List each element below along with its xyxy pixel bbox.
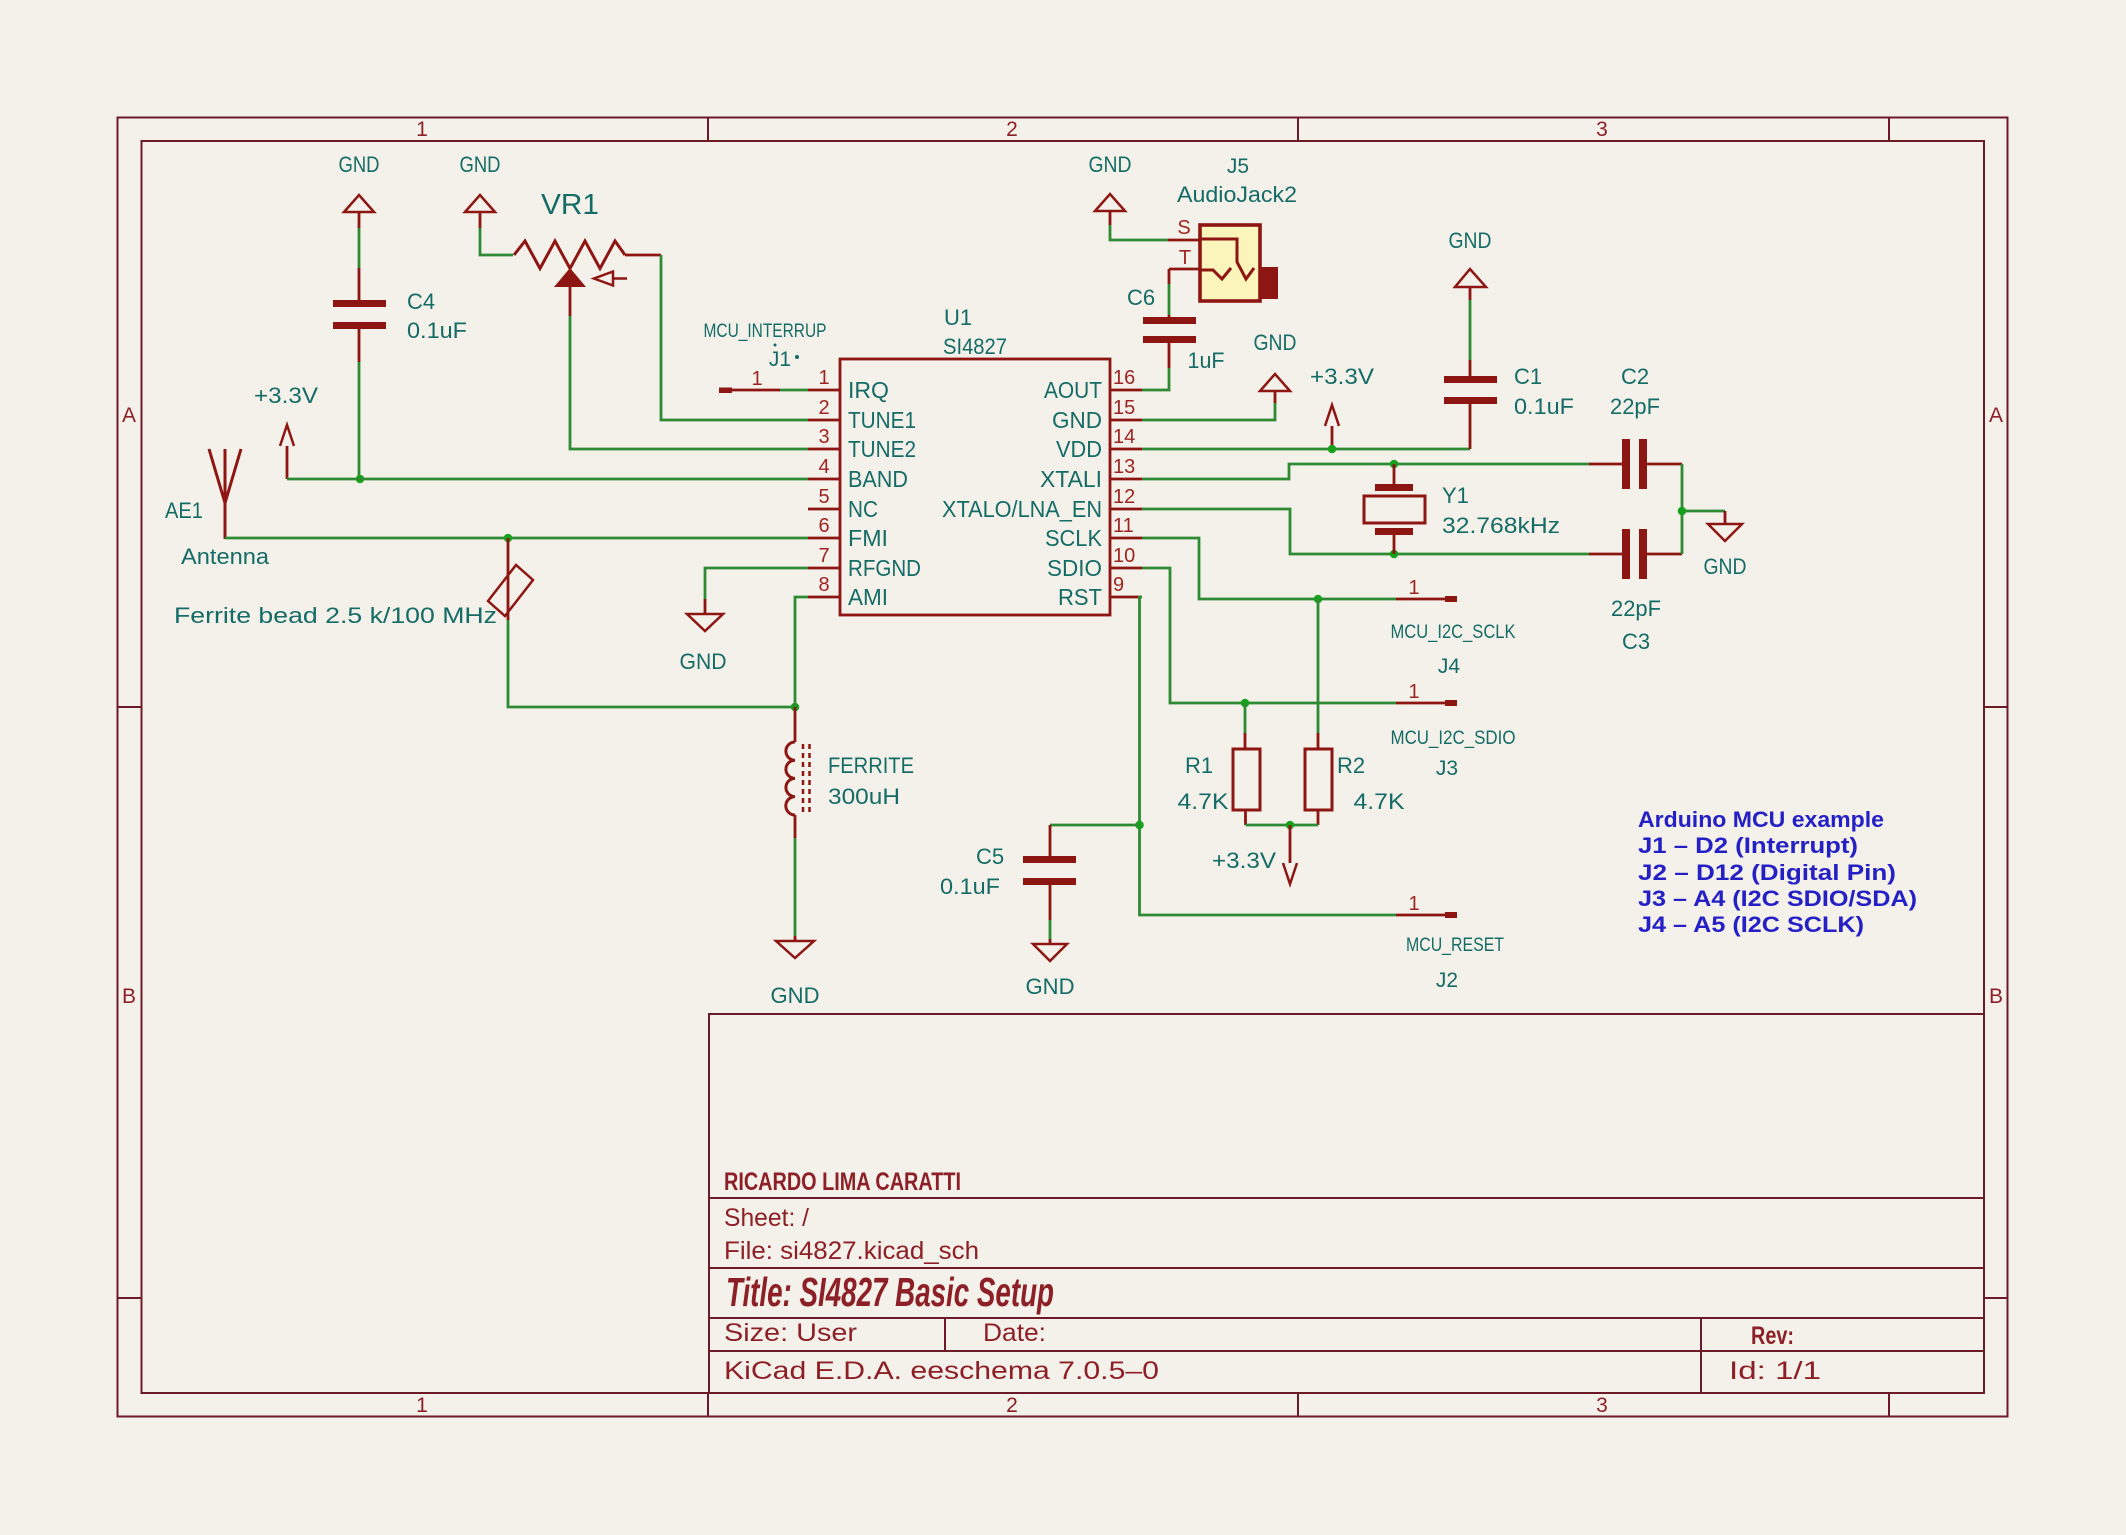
Antenna value label — [181, 544, 270, 569]
U1 value label SI4827 — [943, 334, 1007, 359]
svg-text:J3: J3 — [1436, 757, 1458, 780]
title block sheet — [724, 1204, 809, 1232]
svg-text:MCU_RESET: MCU_RESET — [1406, 935, 1504, 956]
wire C6 to AOUT pin — [1142, 368, 1169, 390]
svg-text:15: 15 — [1113, 397, 1135, 419]
svg-text:1: 1 — [1408, 893, 1419, 915]
svg-text:Arduino MCU example: Arduino MCU example — [1638, 807, 1884, 832]
U1 pin 11 SCLK — [1045, 515, 1142, 551]
capacitor C5 — [1023, 825, 1076, 920]
svg-text:22pF: 22pF — [1610, 394, 1660, 419]
C3 reference label — [1622, 629, 1650, 654]
junction C2/C3/GND — [1678, 507, 1687, 516]
title block title — [726, 1269, 1054, 1315]
svg-text:10: 10 — [1113, 545, 1135, 567]
J3 pin number 1 — [1408, 681, 1419, 703]
svg-text:U1: U1 — [944, 305, 972, 330]
wire GND to VR1 left — [480, 228, 513, 255]
svg-text:32.768kHz: 32.768kHz — [1442, 513, 1560, 538]
U1 pin 5 NC — [808, 486, 878, 522]
svg-text:4.7K: 4.7K — [1354, 789, 1405, 814]
GND net label (pin15) — [1254, 330, 1297, 355]
C2 value label — [1610, 394, 1660, 419]
C5 value label — [940, 874, 1000, 899]
GND net label (jack) — [1089, 152, 1132, 177]
svg-text:1uF: 1uF — [1188, 348, 1225, 373]
connector J2 — [1396, 912, 1457, 918]
title block file — [724, 1237, 979, 1265]
svg-text:FERRITE: FERRITE — [828, 753, 914, 778]
capacitor C4 — [333, 268, 386, 362]
C5 reference label — [976, 844, 1004, 869]
wire VDD net — [1142, 448, 1470, 451]
svg-text:FMI: FMI — [848, 525, 888, 551]
junction crystal top — [1390, 460, 1399, 469]
svg-text:C1: C1 — [1514, 364, 1542, 389]
title block id — [1729, 1357, 1821, 1385]
svg-text:8: 8 — [818, 574, 829, 596]
svg-text:S: S — [1177, 217, 1190, 239]
U1 pin 15 GND — [1052, 397, 1142, 433]
U1 pin 9 RST — [1058, 574, 1142, 610]
svg-text:+3.3V: +3.3V — [1310, 364, 1374, 389]
svg-text:5: 5 — [818, 486, 829, 508]
junction C4/BAND — [356, 475, 365, 484]
U1 reference label — [944, 305, 972, 330]
wire J1 to IRQ pin — [780, 389, 808, 392]
wire GND to C4 — [358, 228, 361, 268]
svg-text:13: 13 — [1113, 456, 1135, 478]
svg-text:SDIO: SDIO — [1047, 555, 1102, 581]
svg-text:VDD: VDD — [1056, 436, 1102, 462]
wire XTALI net — [1142, 464, 1589, 479]
svg-text:GND: GND — [1254, 330, 1297, 355]
svg-text:1: 1 — [1408, 577, 1419, 599]
capacitor C2 — [1589, 439, 1682, 489]
svg-text:XTALI: XTALI — [1040, 466, 1102, 492]
svg-text:KiCad E.D.A. eeschema 7.0.5–0: KiCad E.D.A. eeschema 7.0.5–0 — [724, 1357, 1159, 1385]
svg-text:AOUT: AOUT — [1044, 377, 1102, 403]
svg-text:A: A — [1989, 404, 2003, 427]
L1 300uH value label — [828, 784, 900, 809]
wire VR1 wiper to TUNE2 — [570, 316, 808, 449]
svg-text:J3 – A4 (I2C SDIO/SDA): J3 – A4 (I2C SDIO/SDA) — [1638, 886, 1917, 911]
U1 pin 8 AMI — [808, 574, 888, 610]
svg-text:2: 2 — [818, 397, 829, 419]
svg-text:Ferrite bead 2.5 k/100 MHz: Ferrite bead 2.5 k/100 MHz — [174, 603, 497, 628]
svg-text:TUNE2: TUNE2 — [848, 436, 916, 462]
svg-text:3: 3 — [1596, 1394, 1608, 1417]
J1 pin number 1 — [751, 368, 762, 390]
power +3.3V symbol (VDD) — [1325, 405, 1339, 449]
svg-text:J4 – A5 (I2C SCLK): J4 – A5 (I2C SCLK) — [1638, 912, 1864, 937]
svg-text:RICARDO LIMA CARATTI: RICARDO LIMA CARATTI — [724, 1168, 961, 1196]
svg-text:J2: J2 — [1436, 969, 1458, 992]
svg-text:MCU_I2C_SDIO: MCU_I2C_SDIO — [1391, 728, 1516, 749]
Arduino MCU note line 4 — [1638, 886, 1917, 911]
connector J4 — [1396, 596, 1457, 602]
C6 value label — [1188, 348, 1225, 373]
J3 reference label — [1436, 757, 1458, 780]
svg-text:1: 1 — [416, 118, 428, 141]
wire GND to pin15 — [1142, 403, 1275, 420]
power GND symbol below C5 — [1033, 939, 1067, 961]
Y1 reference label — [1442, 483, 1469, 508]
J5 value label AudioJack2 — [1177, 182, 1297, 207]
svg-text:XTALO/LNA_EN: XTALO/LNA_EN — [942, 496, 1102, 522]
svg-text:+3.3V: +3.3V — [254, 383, 318, 408]
+3.3V net label (VDD) — [1310, 364, 1374, 389]
power GND symbol below inductor — [776, 936, 814, 958]
C1 value label — [1514, 394, 1574, 419]
svg-text:J5: J5 — [1227, 155, 1249, 178]
svg-text:Title: SI4827 Basic Setup: Title: SI4827 Basic Setup — [726, 1269, 1054, 1315]
svg-text:A: A — [122, 404, 136, 427]
frame zone ticks — [118, 118, 2008, 1417]
U1 pin 6 FMI — [808, 515, 888, 551]
IC U1 SI4827 body — [840, 359, 1110, 615]
R1 reference label — [1185, 753, 1213, 778]
+3.3V net label left — [254, 383, 318, 408]
svg-text:0.1uF: 0.1uF — [1514, 394, 1574, 419]
title block date — [983, 1319, 1046, 1347]
capacitor C1 — [1444, 360, 1497, 449]
U1 pin 1 IRQ — [808, 367, 889, 403]
svg-text:Date:: Date: — [983, 1319, 1046, 1347]
svg-text:3: 3 — [1596, 118, 1608, 141]
wire C2/C3 right join — [1682, 464, 1725, 554]
MCU_RESET net label — [1406, 935, 1504, 956]
J2 reference label — [1436, 969, 1458, 992]
resistor R1 — [1233, 703, 1260, 825]
audio jack J5 — [1168, 225, 1278, 301]
svg-text:GND: GND — [339, 152, 380, 177]
J2 pin number 1 — [1408, 893, 1419, 915]
svg-text:GND: GND — [1026, 974, 1075, 999]
svg-text:SI4827: SI4827 — [943, 334, 1007, 359]
svg-text:VR1: VR1 — [541, 189, 599, 221]
wire R1/R2 bottoms — [1246, 824, 1319, 827]
U1 pin 4 BAND — [808, 456, 908, 492]
Arduino MCU note line 1 — [1638, 807, 1884, 832]
U1 pin 10 SDIO — [1047, 545, 1142, 581]
U1 pin 14 VDD — [1056, 426, 1142, 462]
svg-text:AudioJack2: AudioJack2 — [1177, 182, 1297, 207]
svg-text:C5: C5 — [976, 844, 1004, 869]
J4 reference label — [1438, 655, 1461, 678]
svg-text:Size: User: Size: User — [724, 1319, 857, 1347]
resistor R2 — [1305, 599, 1332, 825]
junction antenna/ferrite bead — [504, 534, 513, 543]
svg-text:2: 2 — [1006, 1394, 1018, 1417]
U1 pin 12 XTALO/LNA_EN — [942, 486, 1142, 522]
title block kicad version — [724, 1357, 1159, 1385]
wire GND to C1 — [1469, 300, 1472, 360]
U1 pin 7 RFGND — [808, 545, 921, 581]
svg-text:Antenna: Antenna — [181, 544, 270, 569]
svg-text:MCU_INTERRUP: MCU_INTERRUP — [704, 321, 827, 342]
svg-text:J4: J4 — [1438, 655, 1461, 678]
svg-text:IRQ: IRQ — [848, 377, 889, 403]
wire SDIO net — [1142, 568, 1396, 703]
J5 pin name S — [1177, 217, 1190, 239]
ferrite bead text note — [174, 603, 497, 628]
power +3.3V symbol left — [280, 425, 294, 479]
svg-text:C6: C6 — [1127, 285, 1155, 310]
C3 value label — [1611, 596, 1661, 621]
svg-text:AE1: AE1 — [165, 498, 203, 523]
power GND symbol (jack sleeve) — [1095, 194, 1125, 225]
capacitor C3 — [1589, 529, 1682, 579]
wire inductor to GND — [794, 838, 797, 936]
wire node to AMI pin — [795, 597, 808, 707]
J5 pin name T — [1179, 247, 1191, 269]
capacitor C6 — [1143, 315, 1196, 368]
AE1 reference label — [165, 498, 203, 523]
svg-text:GND: GND — [1704, 554, 1747, 579]
wire +3.3V to BAND pin — [287, 478, 808, 481]
svg-text:R2: R2 — [1337, 753, 1365, 778]
C2 reference label — [1621, 364, 1649, 389]
svg-text:C4: C4 — [407, 289, 435, 314]
GND net label (C1) — [1449, 228, 1492, 253]
L1 FERRITE reference label — [828, 753, 914, 778]
svg-text:J1: J1 — [769, 348, 791, 371]
title block box — [709, 1014, 1984, 1393]
title block company name — [724, 1168, 961, 1196]
title block size — [724, 1319, 857, 1347]
svg-text:GND: GND — [771, 983, 820, 1008]
power GND symbol above C1 — [1455, 269, 1486, 300]
junction SDIO/R1 — [1241, 699, 1250, 708]
svg-text:B: B — [1989, 985, 2003, 1008]
R2 reference label — [1337, 753, 1365, 778]
C1 reference label — [1514, 364, 1542, 389]
svg-text:BAND: BAND — [848, 466, 908, 492]
svg-text:T: T — [1179, 247, 1191, 269]
junction crystal bottom — [1390, 550, 1399, 559]
svg-text:3: 3 — [818, 426, 829, 448]
svg-text:GND: GND — [460, 152, 501, 177]
U1 pin 2 TUNE1 — [808, 397, 916, 433]
connector J1 — [719, 388, 780, 394]
Arduino MCU note line 3 — [1638, 860, 1896, 885]
svg-text:File: si4827.kicad_sch: File: si4827.kicad_sch — [724, 1237, 979, 1265]
svg-text:4.7K: 4.7K — [1178, 789, 1229, 814]
svg-text:GND: GND — [1089, 152, 1132, 177]
wire C4 to BAND net — [358, 362, 361, 479]
svg-text:C2: C2 — [1621, 364, 1649, 389]
wire C5 to RST net — [1050, 824, 1140, 827]
GND net label (C5) — [1026, 974, 1075, 999]
svg-text:300uH: 300uH — [828, 784, 900, 809]
junction RST/C5 — [1135, 821, 1144, 830]
power GND symbol (pin15) — [1260, 374, 1290, 403]
J5 reference label — [1227, 155, 1249, 178]
svg-text:12: 12 — [1113, 486, 1135, 508]
svg-text:Y1: Y1 — [1442, 483, 1469, 508]
wire XTALO net — [1142, 509, 1589, 554]
svg-text:GND: GND — [1052, 407, 1102, 433]
potentiometer VR1 — [514, 241, 661, 316]
svg-text:0.1uF: 0.1uF — [940, 874, 1000, 899]
C4 value label — [407, 318, 467, 343]
R1 value label — [1178, 789, 1229, 814]
J4 pin number 1 — [1408, 577, 1419, 599]
Arduino MCU note line 2 — [1638, 833, 1858, 858]
MCU_I2C_SCLK net label — [1391, 622, 1516, 643]
svg-text:11: 11 — [1113, 515, 1134, 537]
wire VR1 right to TUNE1 — [661, 255, 808, 420]
wire SCLK net — [1142, 538, 1396, 599]
frame inner border — [142, 141, 1985, 1393]
wire ferrite bead down to AMI node — [508, 620, 795, 707]
C6 reference label — [1127, 285, 1155, 310]
VR1 reference label — [541, 189, 599, 221]
Arduino MCU note line 5 — [1638, 912, 1864, 937]
wire antenna to FMI pin — [225, 537, 808, 540]
frame zone labels — [122, 118, 2003, 1417]
wire C5 to GND — [1049, 920, 1052, 939]
svg-text:Rev:: Rev: — [1751, 1322, 1794, 1350]
power GND symbol (crystal) — [1708, 511, 1742, 541]
GND net label (RFGND) — [680, 649, 727, 674]
svg-text:MCU_I2C_SCLK: MCU_I2C_SCLK — [1391, 622, 1516, 643]
antenna AE1 — [209, 449, 241, 539]
GND net label (C4) — [339, 152, 380, 177]
svg-text:2: 2 — [1006, 118, 1018, 141]
junction SCLK/R2 — [1314, 595, 1323, 604]
MCU_I2C_SDIO net label — [1391, 728, 1516, 749]
svg-text:J2 – D12 (Digital Pin): J2 – D12 (Digital Pin) — [1638, 860, 1896, 885]
U1 pin 16 AOUT — [1044, 367, 1142, 403]
svg-text:1: 1 — [1408, 681, 1419, 703]
svg-text:RFGND: RFGND — [848, 555, 921, 581]
wire jack T to C6 — [1168, 269, 1171, 315]
power +3.3V symbol (pullups, pointing down) — [1283, 825, 1297, 884]
crystal Y1 — [1364, 464, 1425, 554]
Y1 value label — [1442, 513, 1560, 538]
svg-text:14: 14 — [1113, 426, 1135, 448]
svg-text:C3: C3 — [1622, 629, 1650, 654]
svg-text:0.1uF: 0.1uF — [407, 318, 467, 343]
svg-text:1: 1 — [751, 368, 762, 390]
svg-text:4: 4 — [818, 456, 829, 478]
power GND symbol (RFGND) — [687, 599, 723, 631]
junction R1R2/+3.3V — [1286, 821, 1295, 830]
power GND symbol above C4 — [344, 195, 374, 228]
wire GND to jack S — [1110, 225, 1168, 240]
GND net label (crystal) — [1704, 554, 1747, 579]
svg-text:J1 – D2 (Interrupt): J1 – D2 (Interrupt) — [1638, 833, 1858, 858]
svg-text:1: 1 — [818, 367, 829, 389]
svg-text:R1: R1 — [1185, 753, 1213, 778]
svg-text:AMI: AMI — [848, 584, 888, 610]
svg-text:Sheet: /: Sheet: / — [724, 1204, 809, 1232]
svg-text:+3.3V: +3.3V — [1212, 848, 1276, 873]
svg-text:GND: GND — [1449, 228, 1492, 253]
J1 reference label — [769, 344, 799, 372]
wire RST net — [1140, 597, 1397, 915]
svg-text:GND: GND — [680, 649, 727, 674]
svg-text:Id: 1/1: Id: 1/1 — [1729, 1357, 1821, 1385]
connector J3 — [1396, 700, 1457, 706]
ferrite bead FB1 — [488, 538, 533, 620]
title block rev — [1751, 1322, 1794, 1350]
U1 pin 13 XTALI — [1040, 456, 1142, 492]
svg-text:B: B — [122, 985, 136, 1008]
C4 reference label — [407, 289, 435, 314]
svg-text:6: 6 — [818, 515, 829, 537]
svg-text:7: 7 — [818, 545, 829, 567]
R2 value label — [1354, 789, 1405, 814]
svg-text:TUNE1: TUNE1 — [848, 407, 916, 433]
svg-text:16: 16 — [1113, 367, 1135, 389]
svg-text:RST: RST — [1058, 584, 1102, 610]
svg-text:9: 9 — [1113, 574, 1124, 596]
svg-text:22pF: 22pF — [1611, 596, 1661, 621]
MCU_INTERRUP net label — [704, 321, 827, 342]
power GND symbol above VR1 — [465, 195, 495, 228]
junction VDD/+3.3V — [1328, 445, 1337, 454]
GND net label (inductor) — [771, 983, 820, 1008]
junction AMI/ferrite/inductor — [791, 703, 800, 712]
svg-text:1: 1 — [416, 1394, 428, 1417]
wire RFGND pin to GND — [705, 568, 808, 599]
U1 pin 3 TUNE2 — [808, 426, 916, 462]
GND net label (VR1) — [460, 152, 501, 177]
+3.3V net label (pullups) — [1212, 848, 1276, 873]
inductor L1 FERRITE — [786, 707, 810, 838]
svg-text:NC: NC — [848, 496, 878, 522]
svg-text:SCLK: SCLK — [1045, 525, 1103, 551]
frame outer border — [118, 118, 2008, 1417]
